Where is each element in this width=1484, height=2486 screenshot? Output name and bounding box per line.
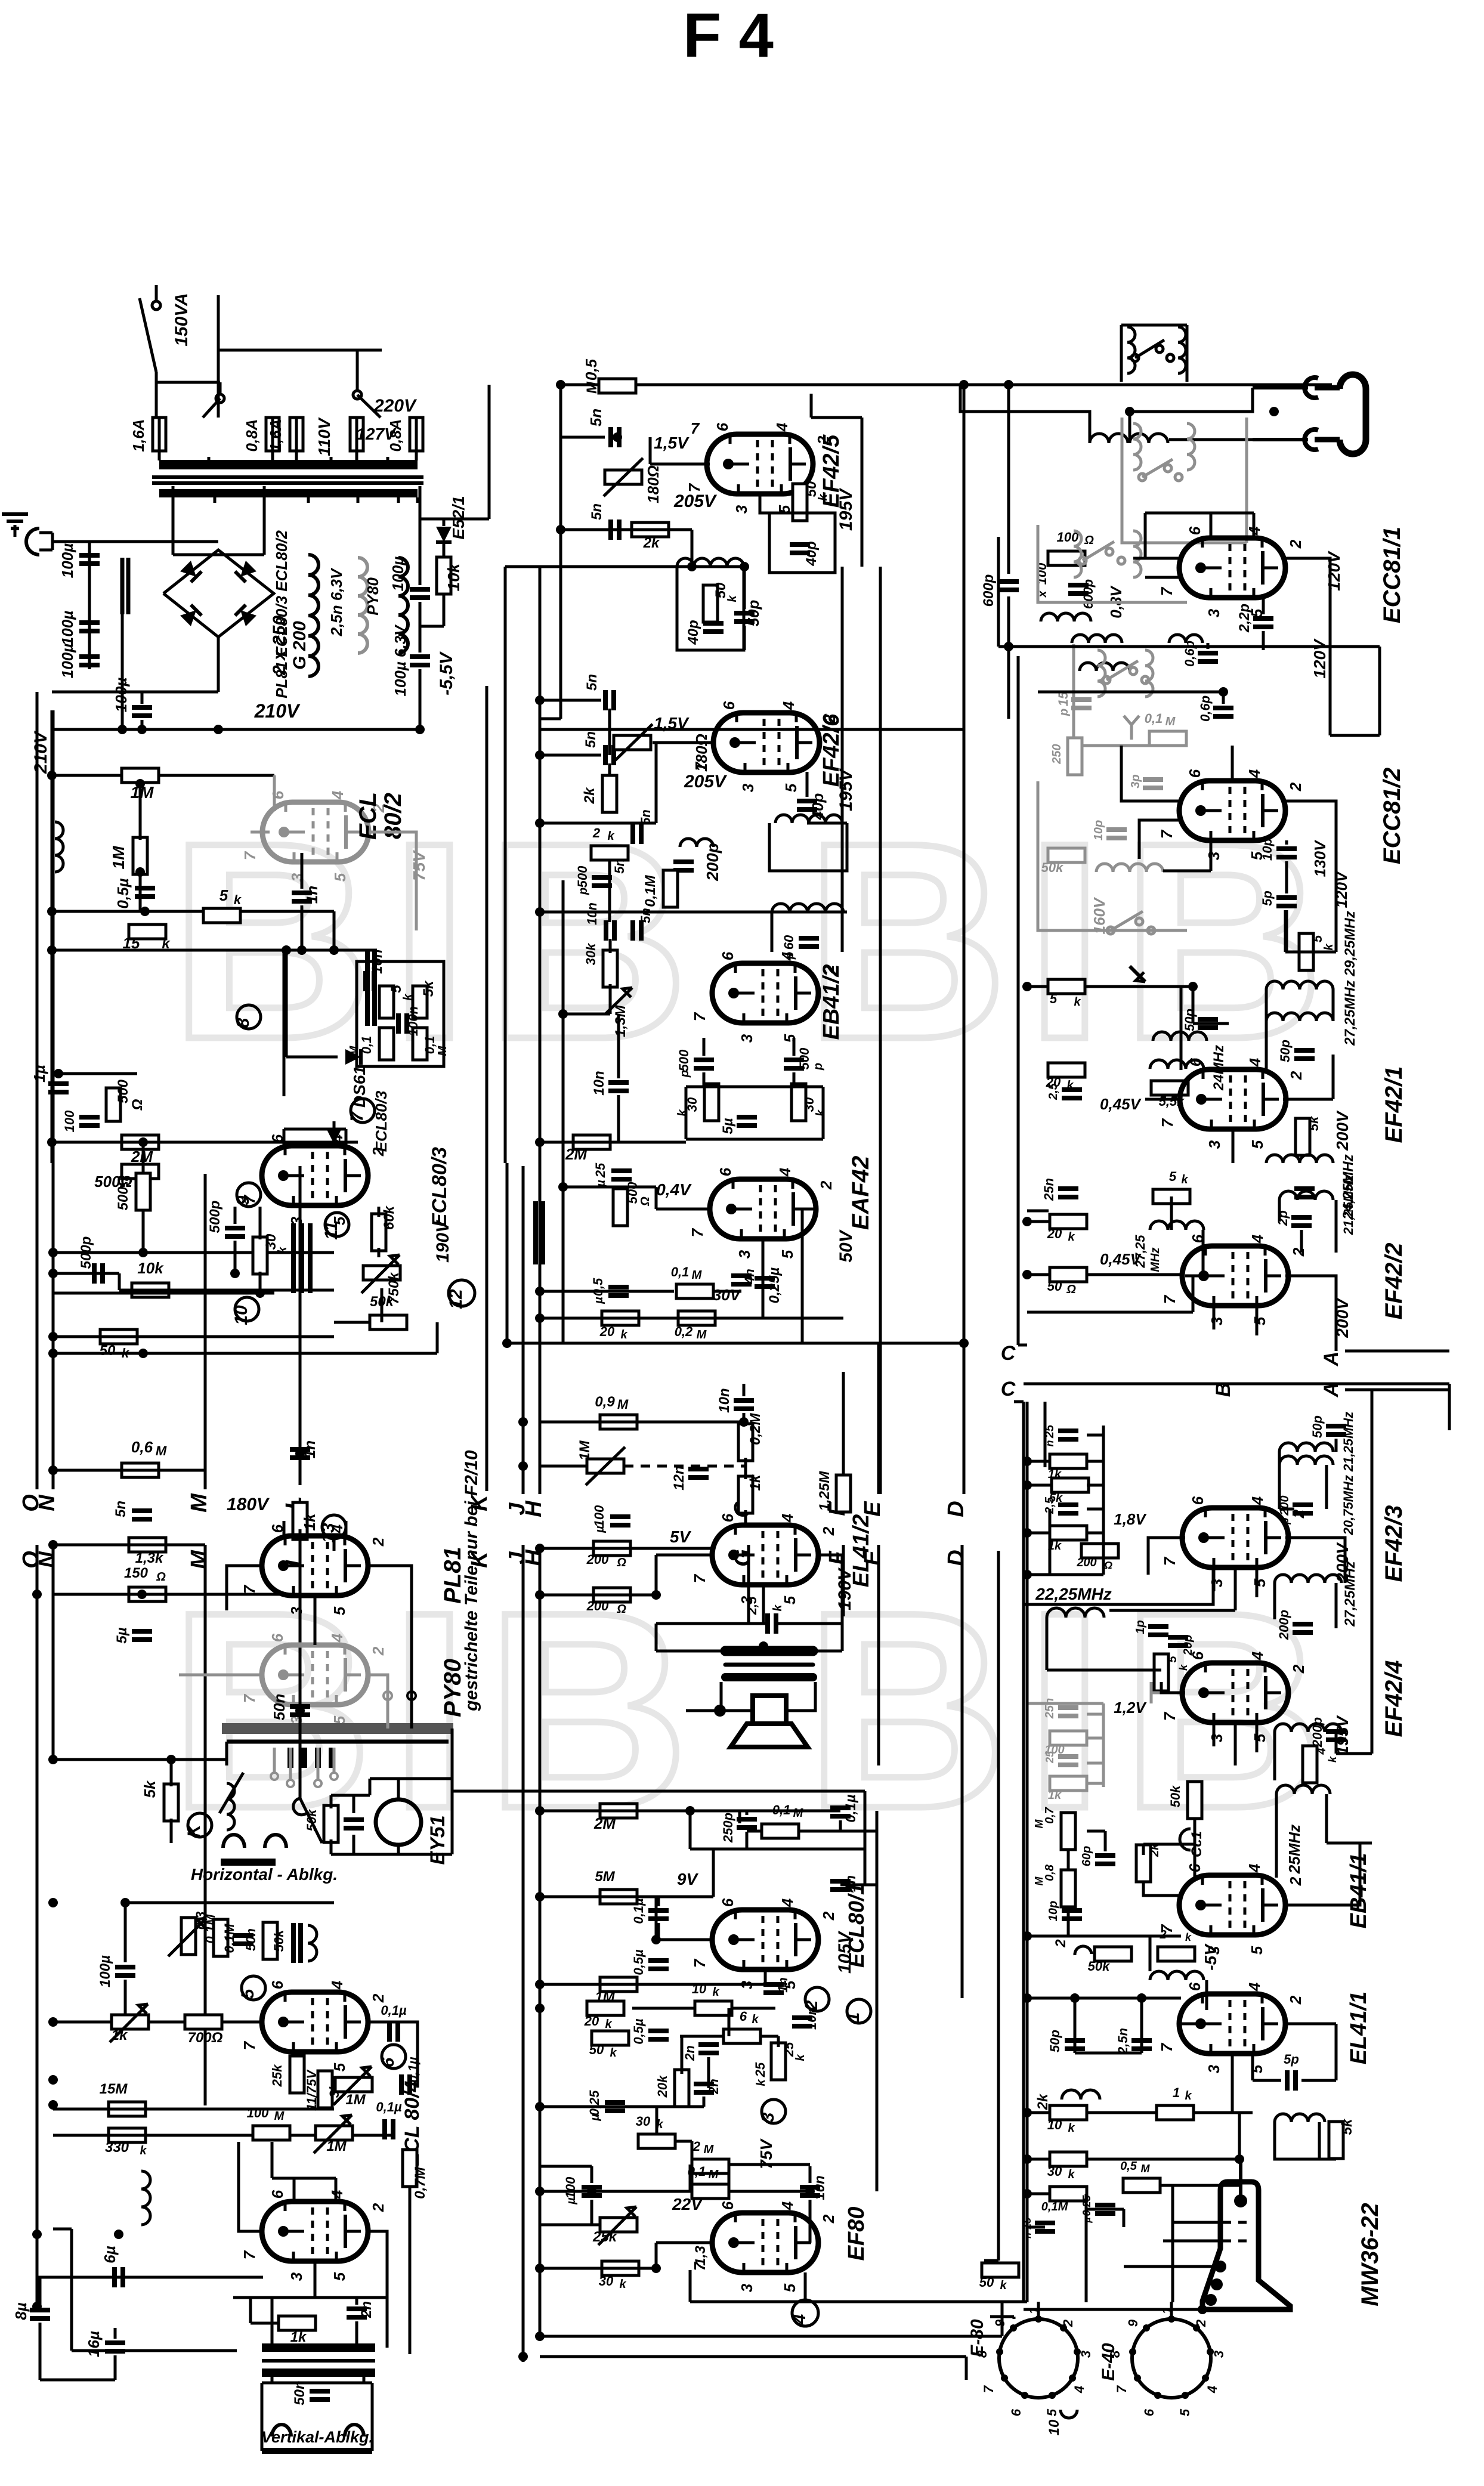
svg-text:205V: 205V (684, 772, 728, 791)
svg-text:0,1: 0,1 (1145, 711, 1163, 726)
svg-text:1p: 1p (1134, 1620, 1147, 1634)
svg-text:4: 4 (1072, 2386, 1087, 2394)
svg-text:20: 20 (584, 2014, 599, 2029)
svg-text:2: 2 (820, 2214, 837, 2224)
svg-text:6: 6 (713, 422, 731, 431)
svg-text:3: 3 (1205, 2064, 1223, 2073)
svg-text:µ: µ (565, 2197, 578, 2205)
svg-text:4: 4 (1205, 2386, 1220, 2394)
svg-text:2: 2 (1287, 782, 1304, 791)
svg-text:5: 5 (1166, 1656, 1179, 1663)
svg-text:0,1M: 0,1M (642, 874, 658, 907)
svg-text:M: M (187, 1493, 212, 1513)
svg-text:0,8A: 0,8A (243, 419, 261, 452)
svg-text:M: M (187, 1550, 212, 1569)
svg-text:Ω: Ω (1084, 534, 1094, 547)
svg-text:7: 7 (241, 851, 259, 860)
svg-text:200: 200 (1076, 1556, 1096, 1569)
svg-text:p: p (577, 888, 590, 895)
svg-text:7: 7 (1158, 2042, 1176, 2052)
svg-text:7: 7 (981, 2385, 996, 2393)
svg-text:M: M (1141, 2163, 1151, 2175)
svg-text:5k: 5k (1306, 1115, 1321, 1131)
svg-text:2: 2 (1287, 539, 1304, 549)
svg-text:100µ 6,3V: 100µ 6,3V (391, 624, 409, 697)
svg-text:8µ: 8µ (12, 2302, 30, 2320)
svg-text:8: 8 (233, 1018, 253, 1028)
svg-text:3: 3 (1211, 2351, 1226, 2358)
svg-text:5: 5 (1248, 2064, 1266, 2073)
svg-text:Vertikal-Ablkg.: Vertikal-Ablkg. (261, 2428, 373, 2446)
svg-text:6: 6 (268, 2190, 286, 2199)
svg-text:ECL80/3: ECL80/3 (428, 1147, 451, 1227)
svg-text:0,45V: 0,45V (1100, 1095, 1142, 1113)
svg-text:G 200: G 200 (290, 621, 310, 670)
svg-text:M: M (1033, 1876, 1045, 1886)
svg-text:0,4V: 0,4V (656, 1180, 692, 1199)
svg-text:0,7: 0,7 (1043, 1807, 1056, 1824)
svg-text:150: 150 (124, 1565, 149, 1581)
svg-text:3: 3 (1205, 608, 1223, 617)
svg-text:50: 50 (100, 1343, 116, 1359)
svg-text:2: 2 (1287, 1995, 1304, 2005)
svg-text:2,5n: 2,5n (1115, 2028, 1130, 2055)
svg-text:4: 4 (329, 790, 347, 800)
svg-text:0,45V: 0,45V (1100, 1250, 1142, 1268)
svg-text:50k: 50k (271, 1929, 286, 1952)
svg-text:0,1µ: 0,1µ (843, 1794, 859, 1822)
svg-text:25n: 25n (1043, 1698, 1056, 1719)
svg-text:DS61: DS61 (350, 1066, 369, 1108)
svg-text:EF42/4: EF42/4 (1381, 1661, 1407, 1737)
svg-text:200: 200 (586, 1598, 609, 1613)
svg-text:5: 5 (330, 1715, 348, 1724)
svg-text:15: 15 (1056, 691, 1071, 706)
svg-text:5: 5 (781, 1034, 799, 1043)
svg-text:1k: 1k (112, 2027, 128, 2043)
svg-text:22V: 22V (672, 2195, 703, 2213)
svg-text:600p: 600p (1081, 579, 1096, 609)
svg-text:2M: 2M (565, 1145, 588, 1163)
svg-text:M: M (274, 2110, 285, 2123)
svg-text:p: p (812, 1063, 825, 1071)
svg-text:N: N (35, 1494, 60, 1511)
svg-text:22,25MHz: 22,25MHz (1035, 1585, 1112, 1603)
svg-text:M: M (704, 2143, 715, 2156)
svg-text:100: 100 (592, 1505, 607, 1527)
svg-text:25: 25 (1044, 1751, 1056, 1764)
svg-text:180V: 180V (227, 1495, 270, 1514)
svg-text:k: k (814, 1109, 827, 1117)
svg-text:7: 7 (240, 2040, 258, 2050)
svg-text:210V: 210V (31, 730, 51, 774)
svg-text:120V: 120V (1310, 638, 1329, 679)
svg-text:100µ: 100µ (58, 644, 76, 678)
svg-text:2: 2 (1194, 2319, 1208, 2327)
svg-text:2: 2 (817, 1180, 835, 1190)
svg-text:5n: 5n (583, 731, 599, 748)
svg-text:2: 2 (1290, 1247, 1307, 1257)
svg-text:1,3: 1,3 (692, 2246, 709, 2266)
svg-text:1,25M: 1,25M (817, 1471, 833, 1511)
svg-text:1,8V: 1,8V (1114, 1510, 1147, 1528)
svg-text:6: 6 (719, 2201, 737, 2210)
svg-text:1M: 1M (345, 2092, 366, 2108)
svg-text:30: 30 (1047, 2164, 1062, 2179)
svg-text:200p: 200p (1276, 1610, 1291, 1640)
svg-text:6: 6 (719, 1513, 737, 1522)
svg-text:3: 3 (1205, 1140, 1223, 1149)
svg-text:9: 9 (1126, 2319, 1140, 2327)
svg-text:0,1: 0,1 (359, 1036, 374, 1055)
svg-text:1,6A: 1,6A (129, 419, 147, 452)
svg-text:10k: 10k (137, 1259, 164, 1277)
svg-text:195V: 195V (836, 487, 856, 531)
svg-text:5n: 5n (612, 858, 627, 874)
svg-text:20,75MHz 21,25MHz: 20,75MHz 21,25MHz (1341, 1412, 1356, 1536)
svg-text:7: 7 (688, 1227, 706, 1237)
svg-text:k: k (1068, 1230, 1075, 1244)
svg-text:2: 2 (802, 2000, 821, 2011)
svg-text:p: p (678, 1070, 691, 1078)
svg-text:7: 7 (691, 1958, 709, 1968)
svg-text:k: k (752, 2013, 759, 2026)
svg-text:0,5: 0,5 (1120, 2160, 1137, 2173)
svg-text:25k: 25k (592, 2229, 618, 2245)
svg-text:C: C (1001, 1378, 1016, 1400)
svg-text:MHz: MHz (1149, 1247, 1162, 1272)
svg-text:0,6: 0,6 (131, 1438, 153, 1456)
svg-text:25: 25 (753, 2062, 768, 2077)
svg-text:-5,5V: -5,5V (437, 651, 456, 695)
svg-text:EF42/3: EF42/3 (1381, 1505, 1407, 1582)
svg-text:2: 2 (1290, 1509, 1307, 1519)
svg-text:0,5: 0,5 (582, 358, 600, 381)
svg-text:127V: 127V (356, 425, 397, 443)
svg-text:25: 25 (593, 1162, 608, 1178)
svg-text:50p: 50p (1047, 2030, 1062, 2052)
svg-text:60p: 60p (1080, 1846, 1093, 1866)
svg-text:k: k (726, 595, 739, 602)
svg-text:5: 5 (388, 985, 404, 993)
svg-text:4: 4 (1248, 1496, 1266, 1505)
svg-text:k: k (1074, 995, 1081, 1009)
svg-text:0,1M: 0,1M (222, 1924, 237, 1953)
svg-text:2: 2 (1287, 1876, 1304, 1886)
svg-text:10n: 10n (591, 1071, 607, 1095)
svg-text:6: 6 (719, 1898, 737, 1907)
svg-text:10k: 10k (444, 562, 463, 591)
svg-text:EB41/2: EB41/2 (819, 964, 844, 1040)
svg-text:Horizontal - Ablkg.: Horizontal - Ablkg. (191, 1865, 338, 1884)
svg-text:0,9: 0,9 (595, 1394, 615, 1410)
svg-text:100µ: 100µ (58, 543, 76, 578)
svg-text:6: 6 (268, 1980, 286, 1989)
svg-text:2: 2 (1053, 1939, 1069, 1948)
svg-text:4: 4 (776, 1167, 794, 1177)
svg-text:3: 3 (1205, 851, 1223, 860)
svg-text:210V: 210V (254, 700, 301, 722)
svg-text:5p: 5p (1260, 890, 1275, 906)
svg-text:6: 6 (1009, 2408, 1024, 2416)
svg-text:4: 4 (1248, 1651, 1266, 1661)
svg-text:6: 6 (740, 2009, 747, 2024)
svg-text:6: 6 (1189, 1496, 1207, 1505)
svg-text:M: M (617, 1397, 629, 1412)
svg-text:k: k (605, 2018, 612, 2031)
svg-text:5n: 5n (638, 809, 653, 825)
svg-text:6: 6 (720, 701, 738, 710)
svg-text:9: 9 (233, 1195, 253, 1205)
svg-text:500Ω: 500Ω (115, 1175, 131, 1210)
svg-text:220V: 220V (373, 396, 418, 416)
svg-text:7: 7 (240, 1584, 258, 1594)
svg-text:F: F (825, 1550, 850, 1565)
svg-text:0,1: 0,1 (422, 1036, 437, 1055)
svg-text:100: 100 (563, 2176, 578, 2199)
svg-text:0,25µ: 0,25µ (766, 1267, 783, 1304)
svg-text:30: 30 (636, 2114, 651, 2129)
svg-text:2k: 2k (643, 535, 660, 551)
svg-text:µ: µ (592, 1297, 605, 1304)
svg-text:5V: 5V (670, 1528, 692, 1546)
svg-text:50p: 50p (1278, 1040, 1293, 1062)
svg-text:6µ: 6µ (101, 2246, 119, 2263)
svg-text:3: 3 (732, 505, 750, 514)
svg-text:3: 3 (1208, 1578, 1226, 1587)
svg-text:2: 2 (1061, 2319, 1075, 2327)
svg-text:5µ: 5µ (720, 1118, 736, 1134)
svg-text:M: M (156, 1443, 167, 1458)
svg-text:110V: 110V (315, 417, 333, 456)
svg-text:2M: 2M (593, 1814, 616, 1832)
svg-text:F 4: F 4 (683, 1, 774, 70)
svg-text:2: 2 (820, 1911, 837, 1921)
svg-text:K: K (184, 1823, 204, 1838)
svg-text:4: 4 (1246, 1058, 1264, 1067)
svg-text:0,8: 0,8 (1043, 1864, 1056, 1881)
svg-text:0,5: 0,5 (590, 1278, 605, 1296)
svg-text:2: 2 (369, 1993, 387, 2003)
svg-text:2: 2 (1290, 1664, 1307, 1674)
svg-text:3: 3 (1078, 2351, 1093, 2358)
svg-text:6: 6 (1142, 2408, 1157, 2416)
svg-text:50k: 50k (1088, 1959, 1111, 1974)
svg-text:10p: 10p (1260, 838, 1275, 861)
svg-text:1k: 1k (747, 1474, 763, 1491)
svg-text:PL81 ECL80/3 ECL80/2: PL81 ECL80/3 ECL80/2 (273, 530, 290, 698)
svg-text:25n: 25n (1041, 1178, 1056, 1201)
svg-text:1: 1 (1173, 2085, 1180, 2100)
svg-text:10n: 10n (812, 2175, 828, 2200)
svg-text:0,6p: 0,6p (1198, 695, 1213, 722)
svg-text:100µ: 100µ (97, 1955, 113, 1987)
svg-text:EAF42: EAF42 (848, 1156, 874, 1230)
svg-text:M: M (436, 1045, 449, 1056)
svg-text:p: p (1058, 709, 1071, 716)
svg-text:2,5: 2,5 (744, 1596, 759, 1615)
svg-text:5µ: 5µ (114, 1627, 130, 1643)
svg-text:2,2p: 2,2p (1236, 604, 1253, 633)
svg-text:6: 6 (719, 951, 737, 960)
svg-text:2: 2 (369, 2203, 387, 2212)
svg-text:6: 6 (1189, 1651, 1207, 1660)
svg-text:k: k (1068, 2168, 1075, 2181)
svg-text:50n: 50n (270, 1694, 288, 1721)
svg-text:k: k (620, 1328, 627, 1341)
svg-text:75V: 75V (410, 850, 428, 881)
svg-text:50k: 50k (304, 1808, 319, 1831)
svg-text:4: 4 (773, 422, 791, 432)
svg-text:500p: 500p (78, 1236, 94, 1269)
svg-text:7: 7 (1158, 586, 1176, 596)
svg-text:2: 2 (592, 825, 601, 840)
svg-text:1n: 1n (303, 886, 321, 904)
svg-text:7: 7 (1158, 829, 1176, 839)
svg-text:30k: 30k (583, 942, 598, 965)
svg-text:20: 20 (1047, 1226, 1062, 1241)
svg-text:k: k (234, 892, 242, 907)
svg-text:500: 500 (676, 1049, 691, 1071)
svg-text:5: 5 (1310, 935, 1325, 942)
svg-text:M: M (697, 1328, 707, 1341)
svg-text:10n: 10n (369, 949, 385, 973)
svg-text:5: 5 (1251, 1578, 1269, 1587)
svg-text:k: k (1322, 944, 1335, 951)
svg-text:H: H (521, 1500, 546, 1517)
svg-text:1M: 1M (326, 2138, 347, 2154)
svg-text:4: 4 (328, 1980, 346, 1990)
svg-text:160V: 160V (1090, 896, 1108, 934)
svg-text:5: 5 (330, 1606, 348, 1615)
svg-text:M: M (1033, 1819, 1045, 1829)
svg-text:k: k (1068, 2122, 1075, 2135)
svg-text:100: 100 (62, 1110, 77, 1132)
svg-text:5: 5 (1044, 2408, 1059, 2416)
svg-text:5p: 5p (1284, 2052, 1299, 2067)
svg-text:3: 3 (739, 783, 757, 792)
svg-text:200p: 200p (1310, 1717, 1325, 1748)
svg-text:7: 7 (1158, 1118, 1176, 1127)
svg-text:205V: 205V (673, 491, 718, 511)
svg-text:100: 100 (247, 2105, 269, 2120)
svg-text:2n: 2n (358, 2301, 375, 2318)
svg-text:EF42/1: EF42/1 (1381, 1066, 1407, 1143)
svg-text:k: k (794, 2054, 807, 2061)
svg-text:6: 6 (268, 1633, 286, 1642)
svg-text:4: 4 (328, 1524, 346, 1533)
svg-text:MW36-22: MW36-22 (1357, 2203, 1383, 2306)
svg-text:6: 6 (1186, 769, 1204, 778)
svg-text:500: 500 (115, 1079, 131, 1103)
svg-text:500: 500 (575, 865, 590, 888)
svg-text:E-40: E-40 (1099, 2343, 1118, 2381)
svg-text:180Ω: 180Ω (644, 465, 662, 503)
svg-text:1M: 1M (577, 1440, 593, 1460)
svg-text:M: M (584, 381, 600, 394)
svg-text:4: 4 (778, 1513, 796, 1523)
svg-text:2: 2 (692, 2139, 701, 2154)
svg-text:15M: 15M (100, 2081, 128, 2097)
svg-text:4: 4 (778, 1898, 796, 1907)
svg-text:Ω: Ω (639, 1196, 652, 1207)
svg-text:7: 7 (1114, 2385, 1129, 2393)
svg-text:Ω: Ω (616, 1556, 626, 1569)
svg-text:6: 6 (1186, 1982, 1204, 1991)
svg-text:4: 4 (778, 2201, 796, 2210)
svg-text:EY51: EY51 (426, 1815, 449, 1864)
svg-text:40p: 40p (803, 541, 820, 566)
svg-text:5k: 5k (421, 980, 437, 997)
svg-text:6: 6 (1186, 526, 1204, 535)
svg-text:60k: 60k (381, 1205, 397, 1230)
svg-text:5n: 5n (113, 1501, 129, 1517)
svg-text:3: 3 (287, 2272, 305, 2281)
svg-text:1: 1 (843, 2012, 863, 2023)
svg-text:3: 3 (1208, 1316, 1226, 1325)
svg-text:k: k (755, 2079, 768, 2086)
svg-text:5: 5 (1248, 1946, 1266, 1955)
svg-text:0,5µ: 0,5µ (114, 878, 132, 908)
svg-text:D: D (944, 1501, 969, 1517)
svg-text:1,3M: 1,3M (613, 1004, 629, 1037)
svg-text:6: 6 (1186, 1058, 1204, 1066)
svg-text:50: 50 (1047, 1279, 1062, 1294)
svg-text:A: A (1320, 1352, 1343, 1367)
svg-text:130V: 130V (1311, 839, 1329, 877)
svg-text:2n: 2n (682, 2045, 697, 2061)
svg-text:50p: 50p (1310, 1415, 1325, 1438)
svg-text:k: k (1327, 1756, 1338, 1763)
svg-text:0,5µ: 0,5µ (631, 2018, 646, 2045)
svg-text:0,6p: 0,6p (1182, 641, 1197, 667)
svg-text:Ω: Ω (156, 1570, 166, 1584)
svg-text:k: k (607, 830, 614, 843)
svg-text:500p: 500p (207, 1201, 223, 1233)
svg-text:10: 10 (1047, 2117, 1062, 2132)
svg-text:7: 7 (691, 1573, 709, 1583)
svg-text:50p: 50p (1182, 1009, 1197, 1031)
svg-text:0,1µ: 0,1µ (376, 2100, 402, 2114)
svg-text:7: 7 (1161, 1556, 1179, 1566)
svg-text:5: 5 (238, 1988, 258, 1999)
svg-text:M: M (1165, 715, 1176, 728)
svg-text:50: 50 (589, 2042, 604, 2057)
svg-text:11: 11 (321, 1221, 341, 1239)
svg-text:k: k (771, 1604, 784, 1612)
svg-text:5k: 5k (1339, 2118, 1355, 2135)
svg-text:2: 2 (1287, 1071, 1305, 1080)
svg-text:100µ: 100µ (389, 556, 407, 591)
svg-text:7: 7 (347, 1111, 367, 1121)
svg-text:4: 4 (1315, 1748, 1328, 1755)
svg-text:0,1: 0,1 (671, 1264, 690, 1279)
svg-text:60: 60 (781, 935, 796, 950)
svg-text:7: 7 (240, 2250, 258, 2259)
svg-text:10n: 10n (716, 1388, 732, 1412)
svg-text:20: 20 (599, 1324, 615, 1339)
svg-text:E: E (860, 1501, 885, 1517)
svg-text:3p: 3p (1129, 774, 1142, 788)
svg-text:3: 3 (738, 2283, 756, 2292)
svg-text:12n: 12n (671, 1465, 687, 1490)
svg-text:150VA: 150VA (172, 293, 191, 347)
svg-text:1M: 1M (109, 846, 128, 870)
svg-text:30V: 30V (713, 1286, 742, 1304)
svg-text:50k: 50k (1041, 860, 1064, 875)
svg-text:5: 5 (782, 783, 800, 792)
svg-text:0,2M: 0,2M (747, 1412, 763, 1445)
